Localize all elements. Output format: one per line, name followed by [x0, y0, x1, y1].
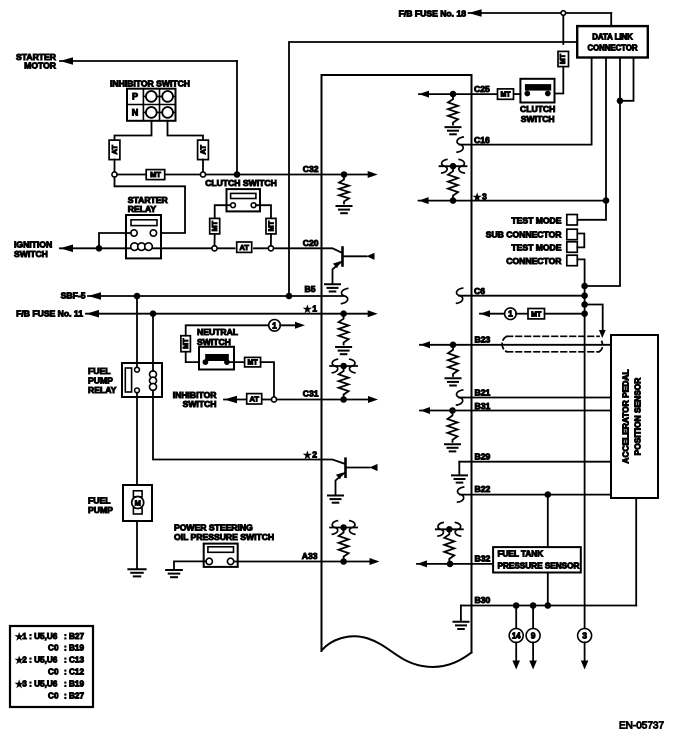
svg-text:B22: B22 [475, 484, 491, 494]
svg-text:MT: MT [531, 311, 542, 318]
wire B30 riser to APS [635, 498, 637, 606]
test mode sub connector pin square 1 [567, 215, 578, 226]
wire inhibitor switch C31 line [224, 396, 237, 404]
svg-text:MT: MT [181, 338, 190, 349]
break curl C16 [457, 137, 463, 152]
node junction fuse11 to relay coil [150, 310, 157, 317]
wire main riser x584 down to circle 3 [584, 286, 586, 629]
MT box on C32 line [146, 170, 165, 180]
node open contact C31 [271, 397, 276, 402]
svg-text:★1 : U5,U6: ★1 : U5,U6 [16, 632, 58, 641]
wire B31 line with arrow [420, 407, 430, 414]
svg-text:SWITCH: SWITCH [14, 249, 48, 259]
wire AT to MT line node [114, 160, 116, 173]
wire FTPS to B30 [547, 573, 549, 606]
svg-text:1: 1 [272, 320, 277, 330]
svg-text:C31: C31 [303, 389, 319, 399]
wire circle 9 arrow down [532, 642, 534, 661]
node shield feed junction [581, 301, 588, 308]
fuel pump motor symbol [133, 491, 142, 497]
wire B22 line [460, 494, 611, 496]
svg-text:MOTOR: MOTOR [24, 60, 57, 70]
svg-text:3: 3 [582, 631, 587, 641]
ground C25 resistor [446, 127, 461, 134]
wire C25 internal with arrow [419, 91, 429, 98]
node junction ignition line [96, 245, 103, 252]
wire drop to circle 9 [532, 606, 534, 629]
svg-text:9: 9 [531, 631, 536, 641]
resistor stub to *3 [448, 169, 458, 197]
wire inhibitor N left to AT [115, 121, 152, 140]
wire SBF-5 / B5 line [88, 292, 101, 300]
svg-text:B32: B32 [475, 553, 491, 563]
svg-text:FUEL: FUEL [88, 496, 110, 506]
starter relay K1 box [126, 215, 161, 258]
ground B31 resistor [445, 444, 460, 451]
resistor stub to B32 [444, 532, 454, 561]
wire clutch switch right leg [256, 205, 271, 218]
svg-text:CLUTCH SWITCH: CLUTCH SWITCH [205, 178, 277, 188]
wire B29 line to ground [459, 461, 611, 463]
svg-text:B23: B23 [475, 334, 491, 344]
wire B30 line [461, 605, 636, 607]
svg-text:RELAY: RELAY [128, 204, 157, 214]
wire shield feed [585, 305, 603, 331]
svg-text:1: 1 [508, 309, 513, 319]
AT box on C31 line [247, 394, 262, 404]
node C32 junction [341, 171, 348, 178]
wire fuse11 drop to relay coil [152, 314, 154, 371]
stub with curls above C31 [330, 365, 357, 367]
test mode connector pin square 4 [567, 255, 578, 266]
power steering contact left [206, 558, 212, 564]
AT box on C20 line [237, 242, 252, 252]
svg-text:RELAY: RELAY [88, 385, 117, 395]
wire C32 internal with arrow [322, 174, 370, 176]
svg-text:N: N [132, 108, 139, 118]
svg-text:EN-05737: EN-05737 [619, 721, 664, 732]
clutch switch SW2 (MT) box [520, 79, 554, 103]
wire ignition switch line [60, 245, 73, 253]
clutch switch SW2 contact left [524, 91, 530, 97]
resistor *1 pull-down [339, 317, 349, 345]
svg-text:MT: MT [560, 53, 567, 64]
node junction pin3/square4 [581, 283, 588, 290]
starter relay contact left [131, 230, 137, 236]
fuel pump relay K2 box [122, 363, 162, 397]
svg-text:: B19: : B19 [64, 679, 84, 688]
resistor C32 pull-down [339, 178, 349, 204]
fuel tank pressure sensor label box [493, 547, 581, 572]
node pin3/pin4 junction [617, 98, 624, 105]
svg-text:: B27: : B27 [64, 691, 84, 700]
wire relay to clutch switch AT line / C20 feed [161, 247, 212, 249]
ground fuel pump [128, 569, 145, 576]
ground C32 resistor [337, 206, 352, 213]
ground power steering switch [166, 570, 182, 577]
neutral switch bar [206, 355, 228, 360]
wire neutral switch to connector 1 [186, 352, 206, 362]
svg-text:B30: B30 [475, 595, 491, 605]
connector circle 3 [578, 629, 592, 643]
fuel pump relay contact top [135, 367, 140, 372]
fuel pump relay armature bar [125, 368, 131, 392]
node B30 junction 14 [513, 602, 520, 609]
ground B23 resistor [446, 378, 461, 385]
fuel pump relay coil [150, 371, 157, 391]
wire clutch feed drop [562, 15, 564, 44]
MT box neutral-left [181, 336, 191, 352]
DLC pin4 wire joining pin3 [620, 58, 634, 101]
resistor stub to A33 [339, 531, 349, 559]
inhibitor switch N row contacts [143, 111, 175, 113]
resistor C25 pull-down [448, 97, 458, 125]
svg-text:NEUTRAL: NEUTRAL [197, 327, 238, 337]
connector circle 14 [509, 629, 523, 643]
svg-text:AT: AT [110, 145, 119, 155]
svg-text:: B19: : B19 [64, 644, 84, 653]
starter relay winding bar [131, 220, 157, 226]
data link connector box [577, 26, 648, 57]
inhibitor switch P row contacts [143, 95, 175, 97]
legend note box [10, 626, 93, 707]
stub with curls above *3 [440, 165, 467, 167]
wire F/B fuse 18 line [469, 9, 482, 17]
break curl C6 [456, 288, 462, 303]
arrow onto B23 shield [599, 330, 606, 338]
wire relay coil to *2 line [153, 390, 322, 459]
svg-text:CONNECTOR: CONNECTOR [506, 256, 562, 266]
svg-text:★2 : U5,U6: ★2 : U5,U6 [16, 656, 58, 665]
svg-text:C0: C0 [48, 691, 59, 700]
svg-text:DATA LINK: DATA LINK [592, 32, 633, 41]
svg-text:AT: AT [249, 394, 259, 403]
fuel pump relay contact bottom [135, 388, 140, 393]
fuel pump M1 box [123, 485, 152, 521]
node junction SBF-5 to fuel pump relay [134, 293, 141, 300]
wire relay contact to fuel pump [136, 393, 138, 485]
AT box left (inhibitor) [109, 140, 120, 160]
stub with curls above A33 [330, 527, 357, 529]
wire to C31 contact [261, 362, 274, 397]
power steering contact right [227, 558, 233, 564]
MT box on connector-1 line [528, 309, 545, 319]
wire *1 internal with arrow [322, 313, 370, 315]
wire fuel pump to ground [136, 521, 138, 568]
starter relay coil [131, 243, 153, 251]
svg-text:C32: C32 [303, 164, 319, 174]
node open junction fuse18/clutch feed [561, 11, 566, 16]
wire B5 internal stub [322, 295, 344, 297]
node B32 junction [447, 561, 454, 568]
DLC pin2 wire to *3 and test mode [577, 58, 606, 220]
svg-text:MT: MT [210, 220, 219, 231]
clutch switch SW1 box [227, 189, 261, 211]
wire C16 internal [460, 144, 472, 146]
MT box clutch-left leg [210, 218, 220, 234]
svg-text:AT: AT [199, 145, 208, 155]
wire F/B fuse 11 / *1 line [86, 310, 99, 318]
wire relay contact to ignition line [99, 233, 131, 248]
node open contact AT-right [268, 246, 273, 251]
node MT line junction [581, 310, 588, 317]
node open contact MT-right [200, 172, 205, 177]
DLC pin1 wire to C16 [472, 58, 592, 145]
svg-text:B29: B29 [475, 452, 491, 462]
svg-text:: B27: : B27 [64, 632, 84, 641]
test mode sub connector pin square 2 [567, 229, 578, 240]
wire circle 14 arrow down [515, 642, 517, 661]
svg-text:OIL PRESSURE SWITCH: OIL PRESSURE SWITCH [174, 532, 274, 542]
resistor B23 pull-down [448, 348, 458, 376]
transistor Q2 (*2 driver) [322, 460, 345, 464]
wire PS switch to ground [174, 561, 206, 569]
svg-text:F/B FUSE No. 11: F/B FUSE No. 11 [16, 308, 83, 318]
DLC pin3 wire down [585, 58, 620, 287]
svg-text:MT: MT [267, 220, 276, 231]
connector circle 9 [526, 629, 540, 643]
node *3 to DLC pin2 junction [603, 197, 610, 204]
wire B23 line with arrow [420, 341, 430, 348]
MT box neutral-right [245, 357, 261, 367]
svg-text:SBF-5: SBF-5 [61, 290, 86, 300]
svg-text:★ 1: ★ 1 [304, 304, 317, 314]
wire square4 down to C6 node [577, 259, 584, 286]
node B23 junction [450, 342, 457, 349]
svg-text:: C12: : C12 [64, 668, 84, 677]
ground *1 resistor [336, 347, 351, 354]
svg-text:SWITCH: SWITCH [521, 114, 555, 124]
clutch switch bar [231, 193, 256, 198]
svg-text:B5: B5 [305, 284, 316, 294]
node junction B5/DLC riser [286, 293, 293, 300]
accelerator pedal position sensor box [611, 335, 658, 498]
svg-text:M: M [135, 498, 141, 507]
starter relay contact right [150, 230, 156, 236]
svg-text:A33: A33 [302, 551, 318, 561]
svg-text:MT: MT [500, 92, 511, 99]
svg-text:C25: C25 [474, 84, 490, 94]
wire MT to riser [545, 313, 585, 315]
wire B32 line with arrow [417, 560, 427, 567]
svg-text:P: P [132, 92, 138, 102]
neutral switch box [199, 347, 234, 370]
svg-text:TEST MODE: TEST MODE [511, 243, 561, 253]
node B30 junction 9 [530, 602, 537, 609]
wire circle1 to MT box [516, 313, 528, 315]
clutch switch SW2 contact right [545, 91, 551, 97]
svg-text:TEST MODE: TEST MODE [511, 215, 561, 225]
MT box clutch-right leg [266, 218, 276, 234]
svg-text:C20: C20 [303, 238, 319, 248]
clutch switch SW2 bar [525, 85, 550, 91]
wire B21 line [459, 397, 611, 399]
inhibitor switch S1 box [127, 89, 176, 121]
svg-text:CLUTCH: CLUTCH [520, 104, 555, 114]
svg-text:F/B FUSE No. 18: F/B FUSE No. 18 [399, 8, 467, 18]
wire A33 internal with arrow [322, 561, 372, 563]
svg-text:POSITION SENSOR: POSITION SENSOR [633, 378, 643, 456]
node B30 junction FTPS [545, 602, 552, 609]
shield dashes around B23 [502, 336, 602, 352]
wire MT line / C32 feed [117, 174, 201, 176]
svg-text:CONNECTOR: CONNECTOR [587, 44, 637, 53]
wire circle 1 arrow [280, 324, 296, 326]
node C6 junction [581, 292, 588, 299]
svg-text:PRESSURE SENSOR: PRESSURE SENSOR [498, 561, 580, 570]
wire inhibitor N right to AT [168, 121, 204, 140]
wire C25 line to clutch switch [472, 93, 498, 95]
wire to AT contact [214, 234, 216, 246]
wire DLC riser [289, 42, 577, 296]
resistor stub to C31 [339, 369, 349, 397]
MT box on C25 line [498, 89, 514, 99]
neutral switch contact left [203, 359, 209, 365]
wire B30 to ground [460, 606, 462, 622]
wire C31 internal with arrow [322, 399, 370, 401]
svg-text:: C13: : C13 [64, 656, 84, 665]
transistor Q1 (C20 driver) [322, 248, 342, 252]
svg-text:C16: C16 [474, 135, 490, 145]
clutch switch contact right [251, 203, 256, 208]
connector circle 1 (left) [269, 320, 281, 332]
wire B22 drop to fuel tank pressure sensor [547, 495, 549, 547]
MT box on clutch feed [558, 51, 569, 66]
svg-text:14: 14 [512, 631, 521, 640]
svg-text:★3 : U5,U6: ★3 : U5,U6 [16, 679, 58, 688]
wire drop to circle 14 [515, 606, 517, 629]
node A33 junction [340, 558, 347, 565]
svg-text:★ 2: ★ 2 [304, 449, 317, 459]
AT box right (inhibitor) [198, 140, 209, 160]
node open contact MT-left [112, 172, 117, 177]
node open contact AT-left [212, 246, 217, 251]
node C31 junction [340, 396, 347, 403]
neutral switch contact right [224, 359, 230, 365]
wire circle 3 arrow down [584, 642, 586, 661]
wire connector-1 MT line (right) [480, 310, 490, 317]
svg-text:INHIBITOR SWITCH: INHIBITOR SWITCH [110, 79, 190, 89]
wire square2 to square3 link [577, 234, 584, 248]
break curl B5 [341, 288, 347, 303]
stub with curls above B32 [436, 528, 463, 530]
power steering switch box [204, 544, 238, 567]
wire starter motor feed [60, 57, 73, 65]
break curl B22 [457, 487, 463, 502]
resistor B31 pull-down [448, 414, 458, 442]
wire MT-left contact to starter relay contact [115, 177, 186, 233]
svg-text:AT: AT [239, 243, 249, 252]
wire neutral switch right leg [227, 361, 245, 363]
node junction starter/MT line [234, 171, 241, 178]
svg-text:SWITCH: SWITCH [183, 399, 217, 409]
clutch switch contact left [231, 203, 236, 208]
connector circle 1 (right) [505, 308, 517, 320]
wire A33 line [234, 561, 322, 563]
svg-text:PUMP: PUMP [88, 505, 113, 515]
power steering switch bar [208, 547, 234, 553]
svg-text:FUEL TANK: FUEL TANK [498, 550, 544, 559]
svg-text:C0: C0 [48, 668, 59, 677]
svg-text:SUB CONNECTOR: SUB CONNECTOR [486, 230, 563, 240]
svg-text:B21: B21 [475, 387, 491, 397]
wire clutch switch left leg [215, 205, 231, 218]
svg-text:B31: B31 [475, 401, 491, 411]
wire SBF-5 drop to relay contact [136, 296, 138, 367]
node *1 junction [340, 310, 347, 317]
wire to C20 line [270, 234, 272, 246]
wire *3 line with arrow [419, 197, 429, 204]
svg-text:SWITCH: SWITCH [197, 337, 231, 347]
svg-text:C0: C0 [48, 644, 59, 653]
node *3 junction [450, 197, 457, 204]
wire MT to circle 1 [186, 325, 269, 335]
test mode connector pin square 3 [567, 242, 578, 253]
ground B30 [454, 622, 469, 629]
node B22 junction to FTPS [545, 491, 552, 498]
wire through starter relay [126, 247, 161, 249]
node C25 junction [450, 91, 457, 98]
wire AT to MT line [202, 160, 204, 173]
svg-text:MT: MT [248, 360, 259, 367]
svg-text:C6: C6 [474, 286, 485, 296]
wire C6 line [459, 295, 585, 297]
svg-text:ACCELERATOR PEDAL: ACCELERATOR PEDAL [621, 369, 631, 463]
ground B29 [452, 475, 467, 482]
break curl B21 [456, 390, 462, 405]
svg-text:MT: MT [150, 170, 161, 179]
wire MT to clutch switch [551, 67, 564, 94]
node B31 junction [449, 407, 456, 414]
ECM box outline [322, 75, 472, 667]
